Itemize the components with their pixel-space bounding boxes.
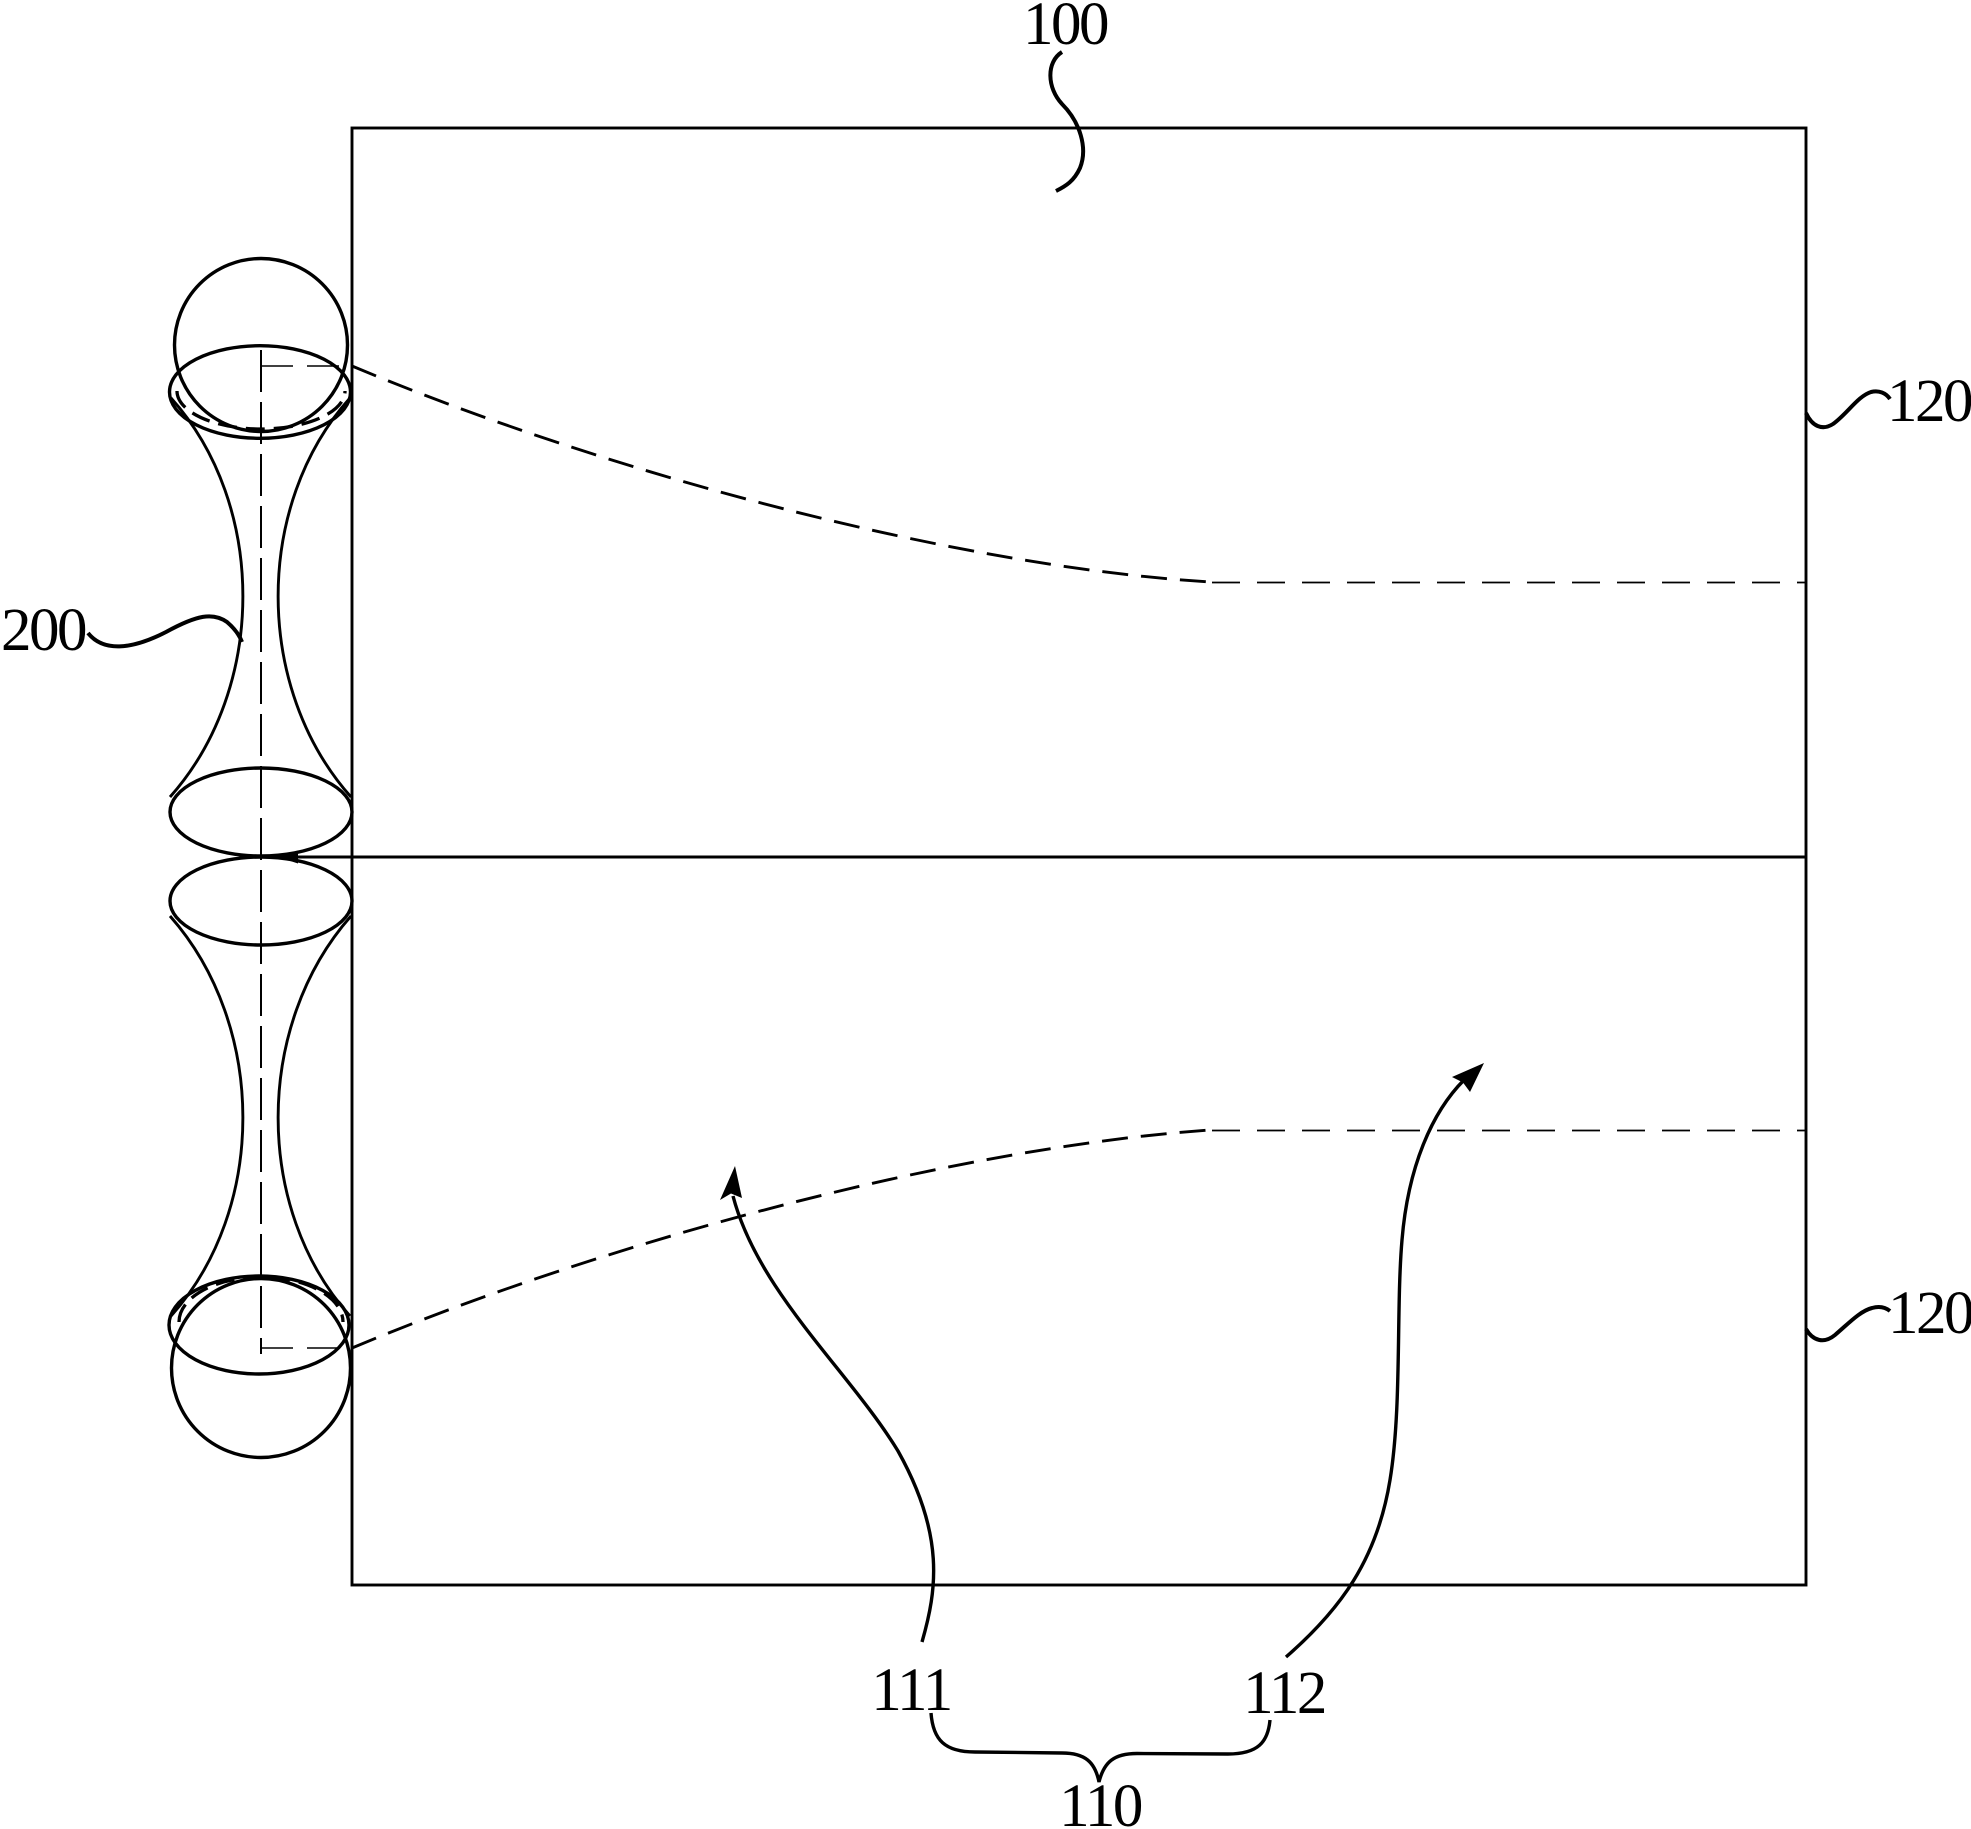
top eye horizontal dashed axis [261,365,352,367]
arrow 111 head [720,1166,742,1200]
bottom eye dashed pupil arc [179,1277,343,1322]
vertical optical axis centerline [260,350,262,1354]
bottom eyeball circle (eye 200 lower) [172,1279,351,1458]
leader squiggle for 120 bottom [1806,1307,1890,1340]
svg-text:120: 120 [1887,368,1971,435]
dashed ray upper slanted part (from top eye toward right) [352,366,1210,582]
top eye dashed pupil arc [177,391,345,429]
leader squiggle for 200 [88,616,242,646]
lower beam right edge [278,916,351,1316]
middle lower lens ellipse [170,857,352,945]
arrow 112 curved shaft [1286,1080,1464,1657]
upper beam right edge [278,398,351,797]
svg-text:200: 200 [1,597,86,664]
leader squiggle for 120 top [1806,391,1890,427]
waveguide body 100 outer rectangle [352,128,1806,1585]
svg-text:111: 111 [871,1657,950,1724]
upper beam left edge [170,398,243,797]
lower beam left edge [170,916,243,1316]
dashed ray upper horizontal part [1212,582,1806,584]
svg-text:100: 100 [1023,0,1108,58]
grating split line 110 (horizontal divider) [285,856,1806,859]
bottom eye lens ellipse [169,1276,349,1374]
brace under 111 and 112 [931,1713,1270,1782]
arrow 111 curved shaft [733,1196,934,1642]
top eye lens ellipse [170,346,351,439]
small left arrow point on divider at lens waist [278,851,298,864]
bottom eye horizontal dashed axis [261,1347,352,1349]
arrow 112 head [1452,1063,1484,1092]
svg-text:112: 112 [1243,1660,1325,1727]
dashed ray lower slanted part (from bottom eye toward right) [352,1130,1210,1348]
middle upper lens ellipse [170,768,352,856]
top eyeball circle (eye 200 upper) [175,259,348,432]
svg-text:120: 120 [1888,1280,1971,1347]
svg-text:110: 110 [1059,1773,1142,1829]
dashed ray lower horizontal part [1212,1130,1806,1132]
leader squiggle for 100 [1050,52,1083,191]
